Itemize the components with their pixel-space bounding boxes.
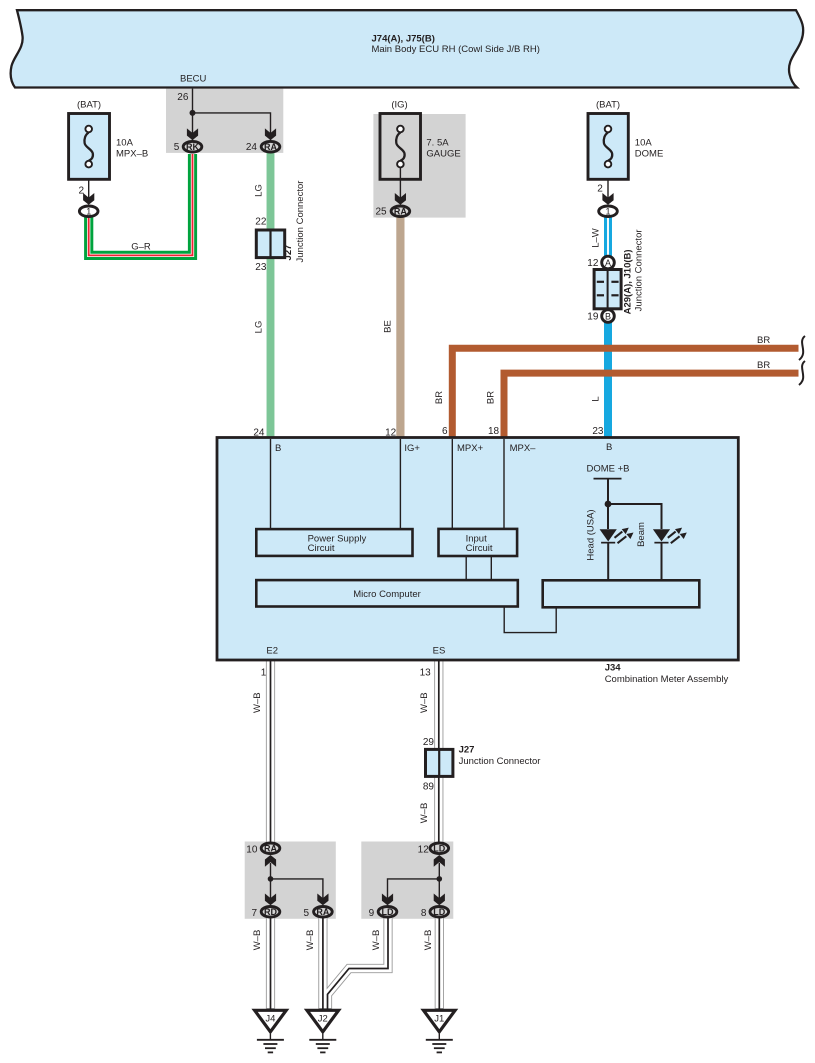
svg-text:Junction Connector: Junction Connector — [295, 181, 306, 263]
svg-text:B: B — [275, 443, 281, 454]
svg-text:BECU: BECU — [180, 74, 207, 85]
svg-text:BR: BR — [757, 335, 770, 346]
svg-text:RA: RA — [264, 844, 277, 854]
svg-text:J34: J34 — [605, 663, 622, 674]
svg-text:12: 12 — [418, 845, 430, 856]
svg-text:IG+: IG+ — [404, 443, 420, 454]
svg-text:A29(A), J10(B): A29(A), J10(B) — [622, 249, 633, 314]
svg-text:LD: LD — [433, 907, 445, 917]
svg-text:MPX–B: MPX–B — [116, 149, 148, 160]
svg-text:(BAT): (BAT) — [596, 100, 620, 111]
svg-text:(IG): (IG) — [391, 100, 407, 111]
svg-text:22: 22 — [255, 217, 267, 228]
svg-text:L: L — [591, 396, 602, 401]
svg-text:MPX+: MPX+ — [457, 443, 484, 454]
svg-text:7. 5A: 7. 5A — [426, 138, 449, 149]
svg-text:9: 9 — [369, 908, 375, 919]
svg-text:BE: BE — [383, 320, 394, 333]
svg-text:RA: RA — [394, 207, 407, 217]
svg-text:B: B — [605, 311, 611, 321]
svg-text:RA: RA — [264, 142, 277, 152]
svg-text:J1: J1 — [434, 1014, 444, 1025]
svg-text:25: 25 — [375, 207, 387, 218]
svg-text:W–B: W–B — [419, 803, 430, 824]
svg-text:BR: BR — [486, 391, 497, 404]
svg-text:12: 12 — [385, 427, 397, 438]
svg-text:Main Body ECU RH (Cowl Side J/: Main Body ECU RH (Cowl Side J/B RH) — [372, 44, 540, 55]
svg-text:J27: J27 — [459, 745, 475, 756]
svg-text:26: 26 — [177, 92, 189, 103]
svg-text:Combination Meter Assembly: Combination Meter Assembly — [605, 674, 729, 685]
svg-text:23: 23 — [255, 262, 267, 273]
svg-text:BR: BR — [757, 360, 770, 371]
svg-text:W–B: W–B — [252, 692, 263, 713]
svg-text:24: 24 — [253, 427, 265, 438]
svg-text:LG: LG — [254, 321, 265, 334]
svg-text:Beam: Beam — [636, 522, 647, 547]
svg-text:7: 7 — [251, 908, 257, 919]
svg-text:DOME +B: DOME +B — [586, 464, 629, 475]
svg-text:J4: J4 — [265, 1014, 275, 1025]
svg-text:2: 2 — [597, 183, 603, 194]
svg-text:E2: E2 — [266, 645, 278, 656]
svg-text:Micro Computer: Micro Computer — [353, 589, 421, 600]
svg-text:1: 1 — [86, 207, 91, 217]
svg-text:(BAT): (BAT) — [77, 100, 101, 111]
svg-text:Junction Connector: Junction Connector — [459, 756, 541, 767]
svg-text:G–R: G–R — [131, 242, 151, 253]
svg-text:1: 1 — [261, 668, 267, 679]
svg-text:W–B: W–B — [305, 930, 316, 951]
svg-text:BR: BR — [434, 391, 445, 404]
svg-text:2: 2 — [78, 185, 84, 196]
svg-text:L–W: L–W — [591, 228, 602, 248]
svg-text:23: 23 — [592, 426, 604, 437]
svg-text:W–B: W–B — [371, 930, 382, 951]
svg-text:5: 5 — [174, 142, 180, 153]
svg-text:1: 1 — [605, 207, 610, 217]
svg-text:8: 8 — [421, 908, 427, 919]
svg-text:10: 10 — [246, 845, 258, 856]
svg-text:RK: RK — [186, 142, 199, 152]
svg-text:W–B: W–B — [252, 930, 263, 951]
svg-text:10A: 10A — [116, 138, 134, 149]
svg-text:DOME: DOME — [635, 149, 664, 160]
svg-text:W–B: W–B — [419, 692, 430, 713]
svg-text:24: 24 — [246, 142, 258, 153]
svg-text:18: 18 — [488, 426, 500, 437]
svg-text:B: B — [606, 442, 612, 453]
svg-text:LG: LG — [254, 184, 265, 197]
svg-text:ES: ES — [433, 645, 446, 656]
svg-text:12: 12 — [587, 258, 599, 269]
svg-text:10A: 10A — [635, 138, 653, 149]
svg-text:89: 89 — [423, 782, 435, 793]
svg-text:LD: LD — [382, 907, 394, 917]
svg-text:J27: J27 — [283, 245, 294, 261]
svg-text:Circuit: Circuit — [308, 543, 335, 554]
svg-text:19: 19 — [587, 311, 599, 322]
svg-text:29: 29 — [423, 737, 435, 748]
svg-text:J2: J2 — [318, 1014, 328, 1025]
svg-text:MPX–: MPX– — [510, 443, 537, 454]
svg-text:RD: RD — [264, 907, 277, 917]
svg-text:13: 13 — [420, 668, 432, 679]
svg-text:Circuit: Circuit — [466, 543, 493, 554]
svg-text:W–B: W–B — [423, 930, 434, 951]
svg-text:RA: RA — [316, 907, 329, 917]
svg-text:5: 5 — [304, 908, 310, 919]
svg-text:LD: LD — [433, 844, 445, 854]
svg-text:Junction Connector: Junction Connector — [633, 229, 644, 311]
svg-text:6: 6 — [442, 426, 448, 437]
svg-text:GAUGE: GAUGE — [426, 149, 460, 160]
svg-text:Head (USA): Head (USA) — [585, 509, 596, 560]
svg-text:A: A — [605, 258, 611, 268]
